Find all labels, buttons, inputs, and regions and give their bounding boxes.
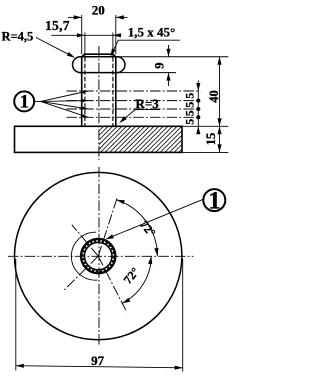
- chain dimension line: [197, 81, 199, 92]
- dimension 97 extension lines: [15, 259, 17, 371]
- chain dimension dot 2: [196, 107, 200, 111]
- right hidden hole line: [112, 33, 114, 57]
- hub outer circle dia 20: [81, 239, 115, 273]
- svg-text:5: 5: [185, 102, 197, 108]
- svg-text:9: 9: [153, 62, 167, 68]
- plate bottom extension line: [182, 151, 228, 153]
- angular dimension arc upper 72: [117, 200, 158, 256]
- radial centerline 72deg: [98, 198, 117, 257]
- angular dimension arc lower 72: [122, 256, 151, 303]
- boss outline with top chamfers: [82, 54, 116, 126]
- chain dimension dot 3: [196, 115, 200, 119]
- front view vertical axis centerline: [98, 46, 100, 160]
- balloon 1 front circle: [14, 91, 34, 111]
- chain dimension dot 1: [196, 99, 200, 103]
- left hidden hole line: [84, 33, 86, 57]
- cross-hole centerline 2: [67, 100, 201, 102]
- svg-text:40: 40: [207, 90, 221, 103]
- cross-hole centerline 1: [67, 90, 201, 92]
- svg-text:20: 20: [92, 2, 105, 17]
- dimension 15 line with arrows: [219, 126, 221, 152]
- svg-text:97: 97: [91, 353, 105, 368]
- dimension 20 line with outside arrows: [68, 16, 82, 18]
- svg-text:5: 5: [185, 119, 197, 125]
- partial arc around hub: [71, 232, 97, 280]
- balloon 1 leader fan with arrows: [41, 91, 88, 101]
- dimension 40 line with arrows: [219, 57, 221, 127]
- bottom view horizontal centerline: [8, 255, 194, 257]
- cross-hole centerline 3: [67, 108, 201, 110]
- plate top extension line: [182, 125, 228, 127]
- dimension 97 line with arrows: [16, 366, 183, 368]
- base plate outline: [15, 126, 183, 152]
- section hatching of plate: [99, 126, 182, 152]
- radius note R=4.5 leader: [36, 38, 74, 58]
- dimension 9 line and outside arrows: [168, 45, 170, 57]
- radial centerline 216deg: [63, 256, 98, 291]
- right hole circle R4.5: [116, 57, 125, 73]
- balloon 1 leader stem: [34, 100, 41, 102]
- svg-text:R=3: R=3: [136, 96, 160, 111]
- hub chamfer circle: [83, 241, 114, 272]
- dimension 20 extension lines: [81, 15, 83, 54]
- left hole circle R4.5: [73, 57, 82, 73]
- slot bottom line and right extension: [80, 72, 117, 74]
- svg-text:1,5 x 45°: 1,5 x 45°: [128, 24, 175, 39]
- svg-text:1: 1: [208, 188, 221, 215]
- slot top line and right extension: [80, 56, 117, 58]
- svg-text:15,7: 15,7: [45, 18, 70, 33]
- dimension 15.7 line with outside arrows: [51, 34, 113, 36]
- disc outer circle dia 97: [15, 172, 182, 339]
- cross-hole centerline 4: [67, 116, 201, 118]
- bottom view vertical centerline: [98, 167, 100, 345]
- balloon 1 bottom circle: [203, 189, 225, 211]
- svg-text:15: 15: [204, 133, 218, 146]
- balloon 1 bottom leader: [107, 199, 204, 239]
- radial centerline 288deg: [98, 256, 127, 312]
- svg-text:5: 5: [185, 110, 197, 116]
- chamfer note leader with shelf: [111, 40, 180, 55]
- svg-text:R=4,5: R=4,5: [2, 29, 34, 43]
- radial centerline 144deg: [72, 225, 98, 256]
- svg-text:1: 1: [20, 92, 30, 113]
- radius note R=3 leader: [121, 110, 160, 122]
- hub hole circle dia 15.7: [85, 242, 112, 269]
- svg-text:5: 5: [185, 93, 197, 99]
